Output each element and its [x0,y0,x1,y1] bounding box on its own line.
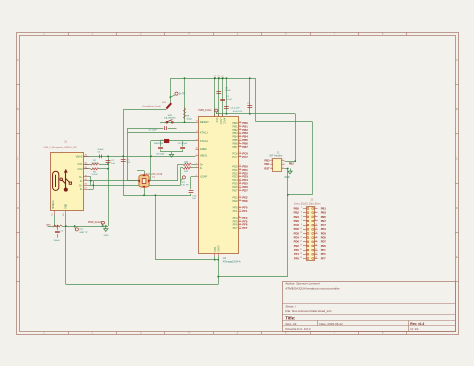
svg-text:2: 2 [315,207,316,209]
svg-text:AVCC: AVCC [223,118,226,125]
svg-text:33: 33 [239,186,241,188]
svg-text:38: 38 [239,146,241,148]
svg-text:D+: D+ [79,175,83,179]
svg-text:USB_C_Receptacle_USB2.0_16P: USB_C_Receptacle_USB2.0_16P [44,146,78,149]
svg-text:A7: A7 [85,178,87,181]
svg-text:VCC: VCC [215,118,218,123]
svg-text:D+: D+ [79,183,83,187]
svg-text:File: first-microcontroller.ki: File: first-microcontroller.kicad_sch [285,309,331,313]
svg-text:PC6: PC6 [294,223,300,227]
svg-text:41: 41 [239,206,241,208]
svg-text:22: 22 [239,165,241,167]
svg-text:PB3: PB3 [233,131,239,135]
svg-text:PF6: PF6 [294,256,299,260]
svg-text:17: 17 [196,131,198,133]
svg-text:Id: 1/1: Id: 1/1 [410,327,419,331]
svg-text:D-: D- [80,187,83,191]
svg-text:PD5: PD5 [232,182,238,186]
svg-text:PB5: PB5 [321,215,327,219]
svg-text:PF7: PF7 [321,256,326,260]
svg-text:CC1: CC1 [77,162,83,166]
svg-text:ATmega32U4-A: ATmega32U4-A [223,260,241,263]
svg-text:18: 18 [239,223,241,225]
svg-text:20: 20 [239,169,241,171]
svg-text:5: 5 [301,216,302,218]
svg-text:5.1kΩ: 5.1kΩ [92,174,98,176]
svg-text:C: C [17,157,19,160]
svg-text:PF1: PF1 [321,248,326,252]
svg-text:5: 5 [271,167,272,169]
svg-text:S1: S1 [52,213,54,215]
svg-text:PB2: PB2 [242,128,248,132]
svg-text:42: 42 [239,125,241,127]
svg-text:16: 16 [196,140,198,142]
svg-text:10: 10 [315,224,317,226]
svg-text:10kΩ: 10kΩ [186,118,192,120]
svg-text:13: 13 [196,121,198,123]
svg-text:UGND: UGND [216,245,219,252]
svg-text:PD1: PD1 [232,168,238,172]
svg-text:PF6: PF6 [242,223,248,227]
svg-text:Title:: Title: [285,316,295,321]
svg-text:47uF 16V: 47uF 16V [233,111,243,113]
svg-text:PD6: PD6 [294,240,300,244]
svg-text:A4: A4 [85,154,87,157]
svg-text:22Ω: 22Ω [184,162,188,164]
svg-text:25: 25 [300,257,302,259]
svg-text:GND: GND [46,224,51,226]
svg-text:12: 12 [315,228,317,230]
svg-text:PB1: PB1 [242,124,248,128]
svg-text:0.1uF: 0.1uF [226,99,232,101]
svg-text:16: 16 [315,236,317,238]
svg-text:PD1: PD1 [242,168,248,172]
svg-text:PB2: PB2 [289,163,294,166]
svg-text:8: 8 [239,142,240,144]
svg-text:31: 31 [239,132,241,134]
svg-text:PB6: PB6 [233,141,239,145]
svg-text:PB5: PB5 [233,138,239,142]
svg-text:PB0: PB0 [294,206,300,210]
svg-text:PB7: PB7 [242,145,248,149]
svg-text:38: 38 [239,135,241,137]
svg-text:PD7: PD7 [242,188,248,192]
svg-text:13: 13 [300,232,302,234]
svg-text:PB6: PB6 [242,141,248,145]
svg-text:FerriteBead_Small: FerriteBead_Small [142,105,161,108]
svg-text:1uF: 1uF [192,198,196,200]
svg-text:PF5: PF5 [233,219,238,223]
svg-text:GND TP: GND TP [79,232,88,234]
svg-text:PB5: PB5 [242,138,248,142]
svg-text:PD4: PD4 [232,178,238,182]
svg-text:8: 8 [315,220,316,222]
svg-text:PB1: PB1 [321,206,327,210]
svg-text:PF6: PF6 [233,223,238,227]
svg-text:PD2: PD2 [232,171,238,175]
svg-text:PE2: PE2 [242,195,248,199]
svg-text:PD0: PD0 [242,164,248,168]
svg-text:PD4: PD4 [294,236,300,240]
svg-text:2: 2 [282,159,283,161]
svg-text:PWR_FLAG: PWR_FLAG [88,221,101,224]
svg-text:7: 7 [196,154,197,156]
svg-text:PC6: PC6 [232,151,238,155]
svg-text:3.3v TP: 3.3v TP [181,185,189,187]
svg-text:12: 12 [239,139,241,141]
svg-text:PB7: PB7 [321,219,327,223]
svg-text:19: 19 [300,245,302,247]
svg-text:42: 42 [239,175,241,177]
svg-text:Conn_02x13_Odd_Even: Conn_02x13_Odd_Even [294,203,321,206]
svg-text:PWR_FLAG: PWR_FLAG [198,109,211,112]
svg-text:3: 3 [301,211,302,213]
svg-text:A6: A6 [85,174,87,177]
svg-text:20: 20 [315,245,317,247]
svg-text:PD6: PD6 [232,185,238,189]
svg-text:B6: B6 [85,184,87,186]
svg-text:Date: 2025-06-22: Date: 2025-06-22 [319,322,343,326]
svg-text:PE6: PE6 [242,199,248,203]
svg-text:PC7: PC7 [232,155,238,159]
svg-text:Size: A4: Size: A4 [285,322,296,326]
svg-text:UCAP: UCAP [200,175,208,179]
svg-text:PD5: PD5 [321,236,327,240]
svg-text:D+: D+ [200,162,204,166]
svg-text:DMG2305: DMG2305 [154,143,164,145]
svg-text:RESET: RESET [200,120,209,124]
svg-text:22Ω: 22Ω [184,171,188,173]
svg-text:PF7: PF7 [233,226,238,230]
svg-text:PD7: PD7 [321,240,327,244]
svg-text:C8 10pF: C8 10pF [148,130,157,132]
svg-text:PD3: PD3 [232,175,238,179]
svg-text:C9 10pF: C9 10pF [156,153,165,155]
svg-text:A1: A1 [62,213,65,215]
svg-text:D: D [456,207,458,210]
svg-text:22: 22 [315,249,317,251]
svg-text:PD1: PD1 [321,227,327,231]
svg-text:Sheet: /: Sheet: / [285,305,296,309]
svg-text:GND: GND [213,247,216,253]
svg-text:PD0: PD0 [294,227,300,231]
svg-text:PB3: PB3 [265,158,271,162]
svg-text:24: 24 [315,253,317,255]
svg-text:PB7: PB7 [233,145,239,149]
svg-text:DA_RESET: DA_RESET [164,117,176,120]
svg-text:PB1: PB1 [233,124,239,128]
svg-text:4: 4 [196,166,197,168]
svg-text:PD5: PD5 [242,182,248,186]
svg-text:18: 18 [315,240,317,242]
svg-text:PF5: PF5 [242,219,248,223]
svg-text:10: 10 [239,227,241,229]
svg-text:PF7: PF7 [242,226,248,230]
svg-text:PC7: PC7 [321,223,327,227]
svg-text:PB4: PB4 [233,135,239,139]
svg-text:7: 7 [301,220,302,222]
svg-text:11: 11 [300,228,302,230]
svg-text:1: 1 [301,207,302,209]
svg-text:38: 38 [239,182,241,184]
svg-text:32: 32 [239,210,241,212]
svg-text:PB0: PB0 [242,121,248,125]
svg-text:RST: RST [264,166,270,170]
svg-text:CC2: CC2 [77,167,83,171]
svg-text:PF4: PF4 [242,216,248,220]
svg-text:PF4: PF4 [233,216,238,220]
svg-text:5v TP: 5v TP [179,94,185,96]
svg-text:PF0: PF0 [242,206,248,210]
svg-text:B5: B5 [85,167,87,169]
svg-text:Author: Spencer Lommel: Author: Spencer Lommel [285,281,320,285]
svg-text:PB2: PB2 [233,128,239,132]
svg-text:100nF: 100nF [97,149,104,151]
svg-text:C: C [456,157,458,160]
svg-text:8: 8 [239,217,240,219]
svg-text:PB0: PB0 [233,121,239,125]
svg-text:PD3: PD3 [242,175,248,179]
svg-text:21: 21 [300,249,302,251]
svg-text:UVCC: UVCC [219,118,222,125]
svg-text:PB2: PB2 [294,211,300,215]
svg-text:15: 15 [300,236,302,238]
svg-text:PF0: PF0 [233,206,238,210]
svg-text:C4 0.1uF: C4 0.1uF [231,108,241,110]
svg-text:B7: B7 [85,188,87,190]
svg-text:6: 6 [315,216,316,218]
svg-text:PE6: PE6 [233,199,239,203]
svg-text:16: 16 [239,128,241,130]
svg-text:PD4: PD4 [242,178,248,182]
svg-text:C11 22pF: C11 22pF [178,143,188,145]
svg-text:26: 26 [315,257,317,259]
svg-text:4: 4 [315,211,316,213]
svg-text:12: 12 [239,220,241,222]
svg-text:17: 17 [239,189,241,191]
svg-text:PB3: PB3 [242,131,248,135]
svg-text:PF5: PF5 [321,252,326,256]
svg-text:PB1: PB1 [265,162,271,166]
svg-text:GND: GND [284,176,290,179]
svg-text:14: 14 [315,232,317,234]
svg-text:D-: D- [80,179,83,183]
svg-text:22: 22 [239,196,241,198]
svg-text:42: 42 [196,148,198,150]
svg-text:XTAL1: XTAL1 [200,131,209,135]
svg-text:1uF: 1uF [126,162,130,164]
svg-text:AREF: AREF [200,147,208,151]
svg-text:GND: GND [66,203,68,208]
svg-text:24: 24 [239,152,241,154]
svg-text:PF4: PF4 [294,252,299,256]
svg-text:PB4: PB4 [294,215,300,219]
svg-text:KiCad E.D.A. 9.0.2: KiCad E.D.A. 9.0.2 [285,327,311,331]
svg-text:VBUS: VBUS [200,154,208,158]
svg-text:6: 6 [196,175,197,177]
svg-text:PB4: PB4 [242,135,248,139]
svg-text:PC6: PC6 [242,151,248,155]
svg-text:9: 9 [301,224,302,226]
svg-text:43: 43 [239,179,241,181]
svg-text:PF1: PF1 [233,209,238,213]
svg-text:PF0: PF0 [294,248,299,252]
svg-text:17: 17 [239,200,241,202]
svg-text:1: 1 [271,159,272,161]
svg-text:0.1uF: 0.1uF [225,90,231,92]
svg-text:PD2: PD2 [242,171,248,175]
svg-text:43: 43 [239,156,241,158]
svg-text:PD2: PD2 [294,231,300,235]
svg-text:PB6: PB6 [294,219,300,223]
svg-text:1uF: 1uF [111,163,115,165]
svg-text:D-: D- [200,166,203,170]
svg-text:17: 17 [300,240,302,242]
svg-text:6: 6 [282,167,283,169]
svg-text:Rev: v1.4: Rev: v1.4 [410,322,424,326]
svg-text:ISP Header: ISP Header [269,154,282,158]
svg-text:38: 38 [239,172,241,174]
svg-text:3: 3 [196,163,197,165]
svg-text:VBUS: VBUS [76,154,83,158]
svg-text:PE2: PE2 [294,244,300,248]
svg-text:PE2: PE2 [233,195,239,199]
svg-text:J1: J1 [64,140,67,144]
svg-text:100nF: 100nF [54,240,61,242]
svg-text:PD6: PD6 [242,185,248,189]
svg-text:3: 3 [271,163,272,165]
svg-text:PD7: PD7 [232,188,238,192]
svg-text:GND: GND [104,235,109,237]
svg-text:PD0: PD0 [232,164,238,168]
svg-text:ATMEGA32U4 breakout microcontr: ATMEGA32U4 breakout microcontroller [285,287,339,291]
svg-text:4: 4 [282,163,283,165]
svg-text:PD3: PD3 [321,231,327,235]
svg-text:PE6: PE6 [321,244,327,248]
svg-text:D: D [17,207,19,210]
svg-text:XTAL2: XTAL2 [200,139,209,143]
svg-text:PC7: PC7 [242,155,248,159]
svg-text:SHIELD: SHIELD [53,200,55,209]
svg-text:23: 23 [300,253,302,255]
svg-text:A5: A5 [85,162,87,165]
svg-text:PF1: PF1 [242,209,248,213]
svg-text:PB3: PB3 [321,211,327,215]
svg-text:23: 23 [239,122,241,124]
